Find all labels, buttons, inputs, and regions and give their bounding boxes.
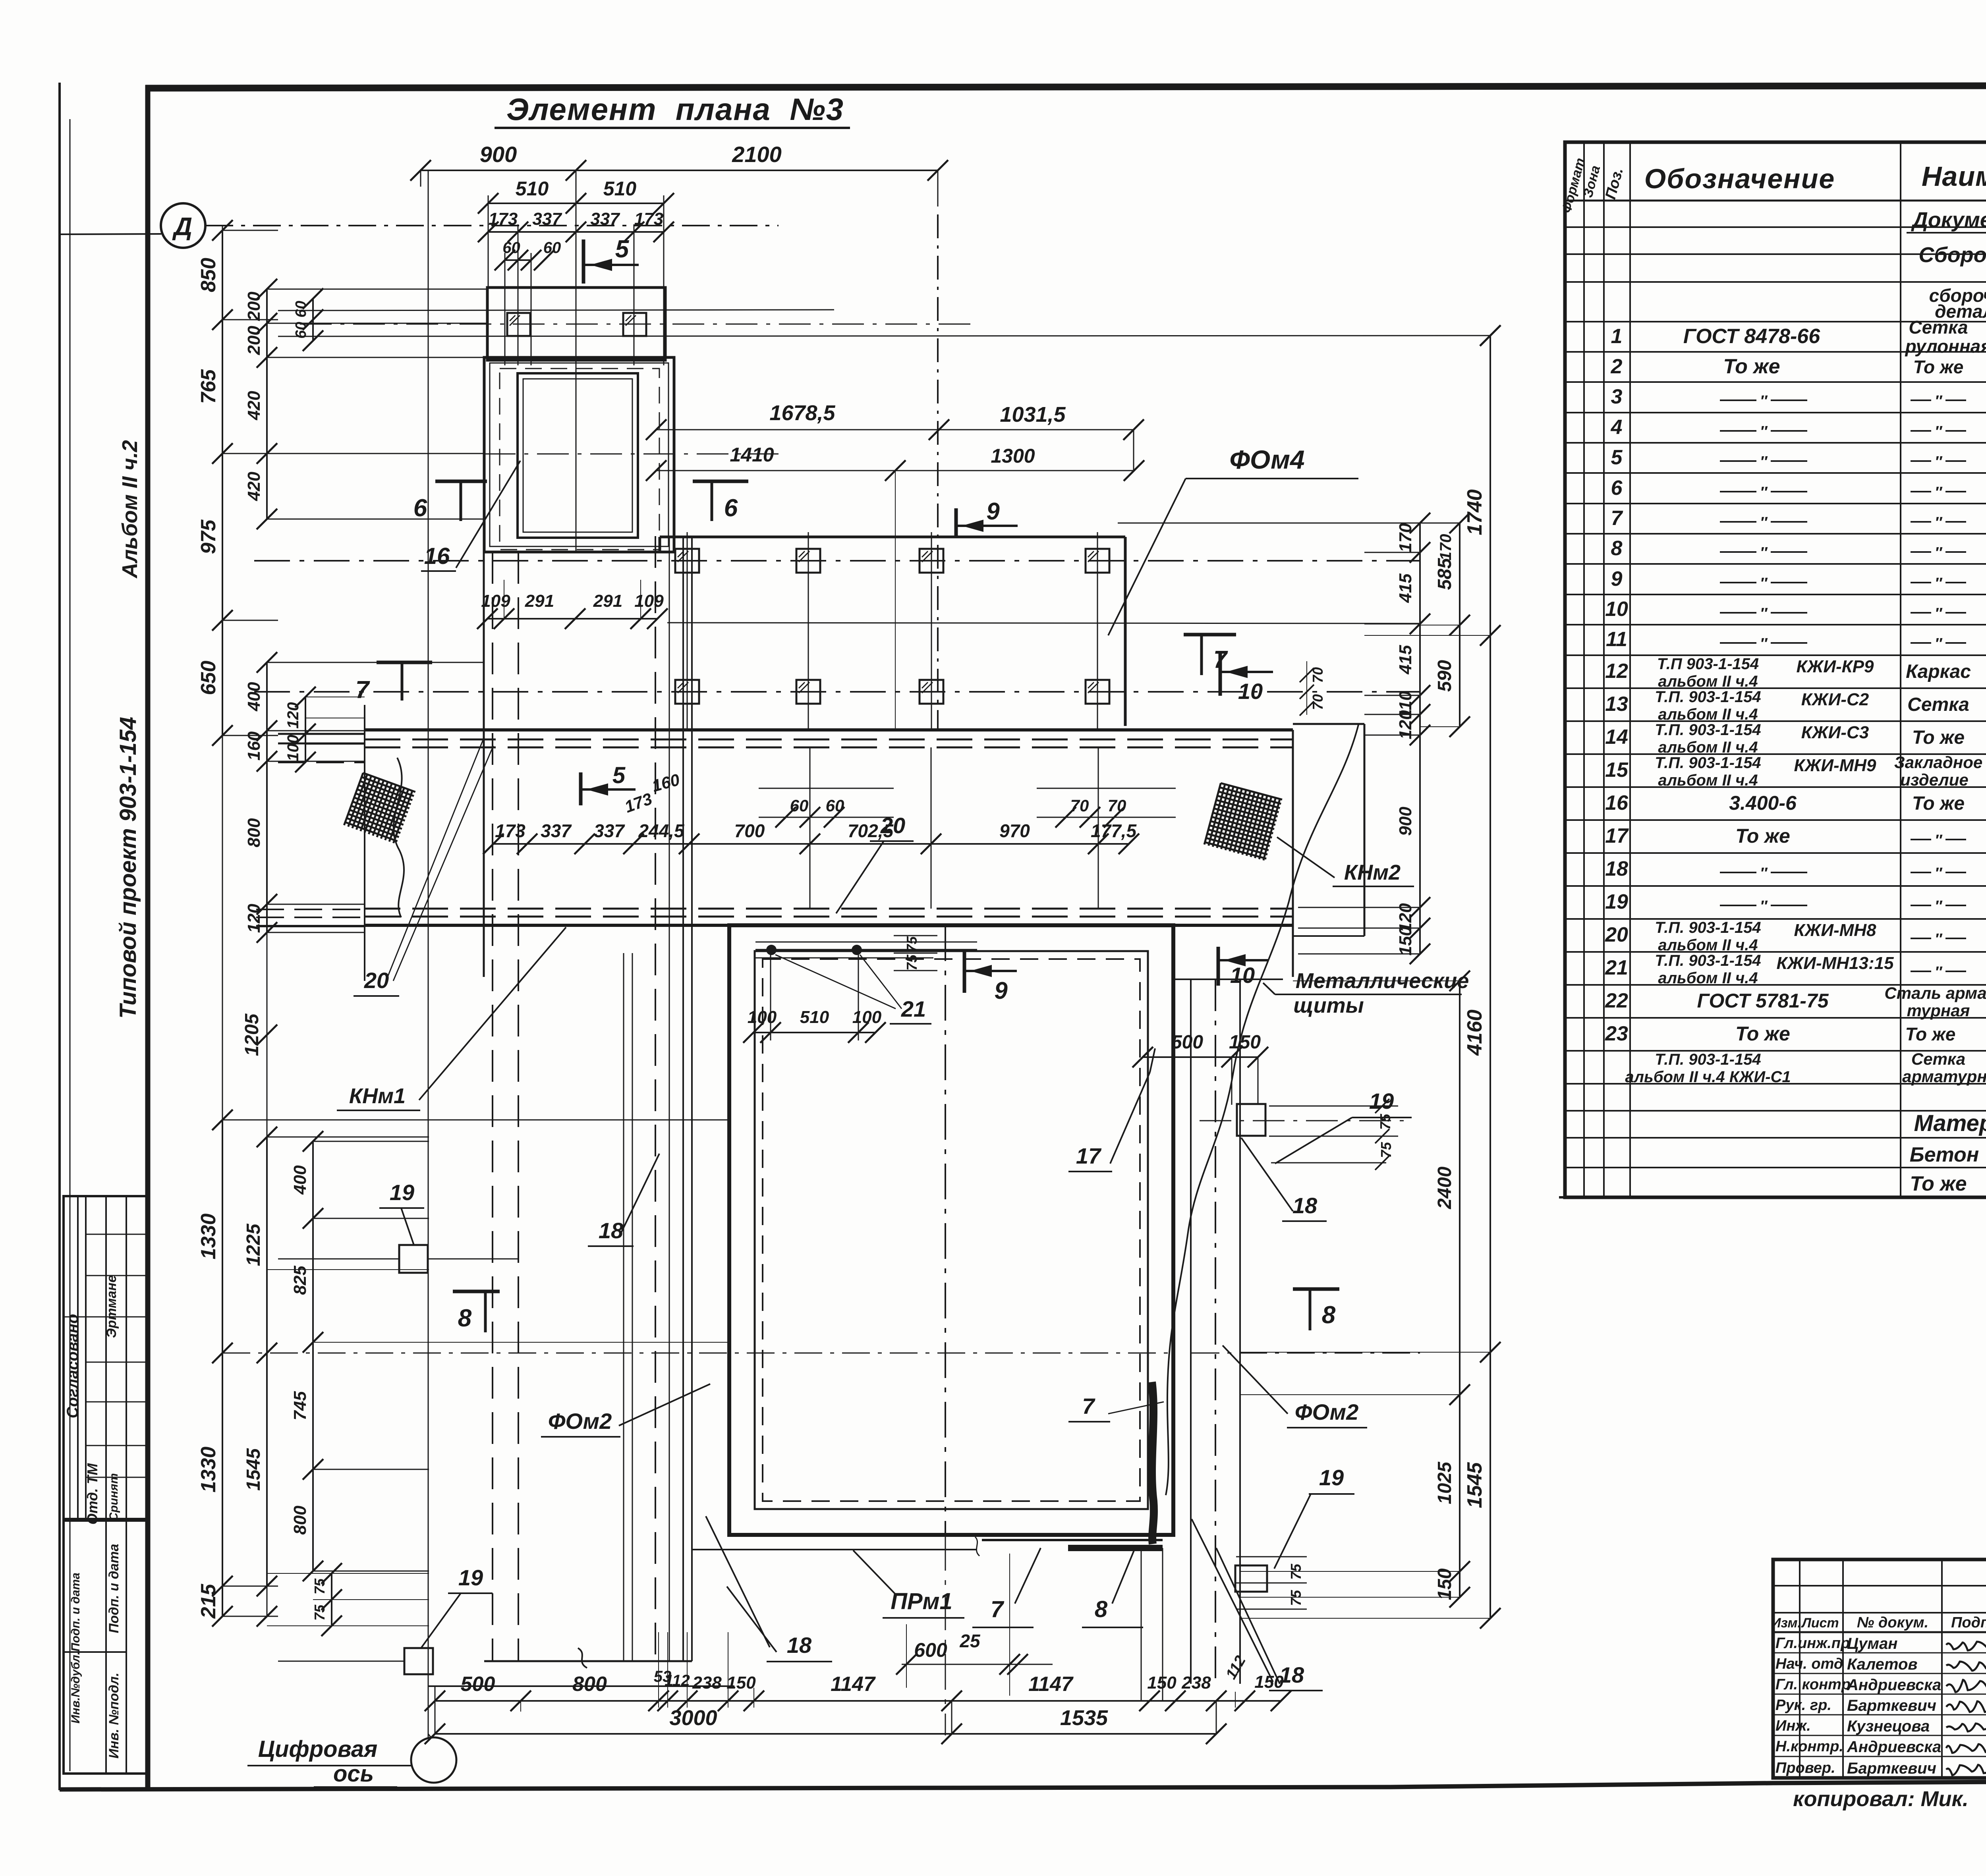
svg-text:17: 17 [1076,1143,1102,1168]
top micro dims 60/60 [505,259,531,261]
micro 75/75 right top [1269,1106,1398,1107]
svg-text:Альбом II ч.2: Альбом II ч.2 [118,440,142,579]
svg-text:1330: 1330 [197,1447,220,1493]
svg-text:ГОСТ 5781-75: ГОСТ 5781-75 [1697,990,1829,1012]
svg-text:112: 112 [665,1672,690,1689]
svg-text:ФОм2: ФОм2 [1295,1399,1359,1424]
svg-text:Цифровая: Цифровая [258,1736,378,1762]
svg-text:2100: 2100 [732,142,782,167]
svg-text:173: 173 [495,820,525,841]
svg-text:5: 5 [612,762,626,788]
svg-text:200: 200 [244,291,264,321]
svg-text:900: 900 [1396,807,1415,836]
svg-text:Сетка: Сетка [1907,694,1969,715]
svg-text:Т.П. 903-1-154: Т.П. 903-1-154 [1655,952,1761,969]
title block rows left part [1773,1585,1986,1586]
right dim chain B [1459,523,1461,727]
svg-text:То же: То же [1912,793,1965,814]
section mark 7 right [1184,633,1236,637]
svg-text:850: 850 [197,258,220,292]
svg-text:″: ″ [1935,454,1943,470]
svg-text:Андриевска: Андриевска [1847,1738,1941,1756]
svg-text:рулонная: рулонная [1905,336,1986,357]
svg-text:6: 6 [1611,477,1623,500]
svg-text:То же: То же [1913,357,1964,377]
svg-text:14: 14 [1605,726,1628,749]
channel right end step [1292,730,1294,977]
svg-text:800: 800 [290,1505,310,1535]
svg-text:18: 18 [1605,857,1628,880]
svg-text:4160: 4160 [1463,1009,1486,1056]
svg-text:щиты: щиты [1293,994,1364,1017]
bottom dim chain row1 [435,1700,1281,1702]
dim row inside channel [493,843,1129,845]
svg-text:970: 970 [999,820,1030,841]
svg-text:18: 18 [787,1633,812,1658]
channel top dashed pair [365,739,1293,741]
section mark 10 lower [1217,947,1220,986]
svg-text:150: 150 [1147,1673,1177,1693]
svg-text:КЖИ-С3: КЖИ-С3 [1801,723,1869,742]
svg-text:То же: То же [1912,727,1965,748]
section mark 10 top [1219,653,1222,696]
svg-text:3000: 3000 [669,1706,717,1730]
dim 500/150 right [1143,1056,1258,1058]
hatch blob KNm2 [1204,783,1282,861]
svg-text:″: ″ [1760,575,1768,592]
svg-text:1025: 1025 [1434,1461,1455,1504]
svg-text:20: 20 [364,968,389,993]
svg-text:2: 2 [1611,355,1623,378]
svg-text:7: 7 [355,676,370,704]
svg-text:60: 60 [826,796,844,815]
central pit dashed inner [763,959,1140,1501]
svg-text:150: 150 [1396,926,1415,955]
svg-text:То же: То же [1735,1023,1790,1045]
svg-text:″: ″ [1760,514,1768,531]
svg-text:альбом II ч.4: альбом II ч.4 [1658,706,1758,723]
svg-text:21: 21 [1605,956,1628,979]
svg-text:10: 10 [1605,598,1628,621]
svg-text:КЖИ-КР9: КЖИ-КР9 [1796,657,1874,676]
svg-text:″: ″ [1935,393,1943,409]
svg-text:″: ″ [1935,931,1943,948]
svg-text:3: 3 [1611,385,1623,408]
svg-text:турная: турная [1907,1001,1970,1020]
svg-text:16: 16 [1605,791,1629,814]
channel break squiggle left [394,758,404,917]
svg-text:22: 22 [1605,989,1628,1012]
svg-text:100: 100 [748,1007,777,1027]
svg-text:20: 20 [880,813,905,838]
svg-text:8: 8 [1611,537,1623,560]
channel top solid [365,728,1293,731]
svg-text:415: 415 [1396,573,1415,603]
svg-text:585: 585 [1434,558,1455,590]
svg-text:420: 420 [244,391,264,421]
svg-text:Т.П. 903-1-154: Т.П. 903-1-154 [1655,688,1761,706]
svg-text:170: 170 [1396,523,1415,552]
svg-text:500: 500 [1171,1032,1203,1053]
svg-text:100: 100 [852,1007,882,1027]
svg-text:альбом II ч.4: альбом II ч.4 [1658,673,1758,690]
svg-text:19: 19 [1605,890,1628,913]
svg-text:9: 9 [994,977,1008,1004]
svg-text:177,5: 177,5 [1091,820,1137,841]
svg-text:КНм2: КНм2 [1344,861,1401,884]
svg-text:Закладное: Закладное [1894,753,1983,772]
svg-text:600: 600 [914,1639,947,1661]
svg-text:ГОСТ 8478-66: ГОСТ 8478-66 [1683,325,1820,348]
svg-text:№ докум.: № докум. [1857,1614,1928,1631]
metal shield thick line right wall [1152,1382,1154,1544]
svg-text:ФОм2: ФОм2 [548,1409,612,1434]
svg-text:Цуман: Цуман [1847,1635,1897,1652]
svg-text:6: 6 [413,494,427,522]
svg-text:900: 900 [480,142,517,167]
svg-text:Сталь арма-: Сталь арма- [1884,984,1986,1002]
svg-text:Элемент плана №3: Элемент плана №3 [506,92,844,127]
svg-text:415: 415 [1396,645,1415,675]
svg-text:арматурная: арматурная [1902,1067,1986,1086]
svg-text:Типовой проект 903-1-154: Типовой проект 903-1-154 [115,717,141,1019]
axis through footing squares [300,324,977,325]
svg-text:″: ″ [1760,454,1768,470]
left small squares 19 [399,1245,428,1273]
svg-text:700: 700 [734,820,765,841]
svg-text:″: ″ [1935,635,1943,652]
pit 16 dashed wall line [500,369,659,550]
dim 100/510/100 inside pit [753,1032,875,1033]
svg-text:КЖИ-МН13:15: КЖИ-МН13:15 [1776,953,1894,973]
svg-text:1535: 1535 [1060,1706,1108,1730]
svg-text:510: 510 [800,1007,829,1027]
svg-text:Н.контр.: Н.контр. [1775,1738,1843,1755]
channel left vertical solid [483,359,485,977]
pit vertical axis [945,925,946,1535]
svg-text:ФОм4: ФОм4 [1229,445,1304,474]
svg-text:1225: 1225 [243,1223,264,1266]
column squares row2 [675,680,699,704]
svg-text:альбом II ч.4: альбом II ч.4 [1658,772,1758,789]
bottom row line for materials [1559,1196,1986,1199]
svg-text:″: ″ [1760,484,1768,501]
svg-text:Д: Д [172,212,192,241]
svg-text:″: ″ [1760,423,1768,440]
section mark 7 left [377,661,432,664]
footing column square 2 [623,313,646,336]
svg-text:75: 75 [311,1578,328,1594]
svg-text:Нач. отд: Нач. отд [1775,1656,1843,1672]
digital axis vertical [428,170,429,1737]
svg-text:″: ″ [1935,605,1943,622]
svg-text:Сборочный чертёж: Сборочный чертёж [1918,243,1986,267]
platform interior line [667,623,1420,623]
svg-text:Наименование: Наименование [1922,161,1986,192]
svg-text:244,5: 244,5 [638,820,685,841]
platform outline [660,536,1125,538]
svg-text:″: ″ [1935,575,1943,592]
right strip verticals [1190,979,1192,1684]
svg-text:альбом II ч.4: альбом II ч.4 [1658,969,1758,987]
svg-text:400: 400 [290,1165,310,1195]
svg-text:″: ″ [1760,898,1768,915]
svg-text:Бетон: Бетон [1910,1143,1979,1166]
svg-text:337: 337 [594,820,625,841]
svg-text:КЖИ-МН8: КЖИ-МН8 [1794,921,1876,940]
channel dashed verticals [492,552,493,1661]
svg-text:″: ″ [1760,544,1768,561]
section mark 9 mid [954,508,958,537]
svg-text:То же: То же [1910,1172,1967,1195]
section mark 9 lower [963,951,966,993]
svg-text:2400: 2400 [1434,1166,1455,1209]
svg-text:″: ″ [1935,544,1943,561]
top dimension 900 / 2100 [421,170,938,171]
right strip squares 19 [1237,1104,1265,1136]
svg-text:Гл.инж.пр: Гл.инж.пр [1775,1635,1850,1652]
svg-text:7: 7 [991,1596,1005,1622]
section mark 8 left [453,1290,500,1293]
channel bottom solid [365,924,1293,927]
svg-text:291: 291 [593,591,622,611]
svg-text:Т.П. 903-1-154: Т.П. 903-1-154 [1655,919,1761,936]
svg-text:19: 19 [1319,1465,1344,1490]
svg-text:215: 215 [197,1584,220,1619]
svg-text:Т.П. 903-1-154: Т.П. 903-1-154 [1655,721,1761,739]
svg-text:Подп. и дата: Подп. и дата [106,1544,122,1633]
svg-text:60: 60 [543,239,561,257]
svg-text:109: 109 [634,591,664,611]
svg-text:КЖИ-С2: КЖИ-С2 [1801,690,1869,709]
svg-text:3.400-6: 3.400-6 [1729,792,1797,814]
frame top thick border [145,85,1986,88]
svg-text:25: 25 [959,1631,981,1651]
extension verticals for top dims [420,170,421,187]
svg-text:70: 70 [1108,796,1126,815]
svg-text:8: 8 [458,1305,472,1332]
svg-text:1205: 1205 [241,1013,263,1056]
micro 75/75 right bottom [1236,1556,1307,1558]
pit bottom lines [982,1539,1163,1541]
section mark 5 (top) [582,239,585,284]
svg-text:120: 120 [244,903,264,933]
specification table outer border [1565,142,1986,1197]
svg-text:6: 6 [724,494,738,522]
section mark 5 lower [579,772,583,805]
svg-text:То же: То же [1905,1024,1956,1044]
long wavy break line right side [1166,725,1358,1495]
svg-text:200: 200 [244,326,264,355]
svg-text:КЖИ-МН9: КЖИ-МН9 [1794,756,1876,775]
metal shield bottom L-bar [1068,1545,1163,1551]
svg-text:Каркас: Каркас [1906,661,1971,682]
svg-text:10: 10 [1238,679,1263,704]
svg-text:альбом II ч.4: альбом II ч.4 [1658,739,1758,756]
central pit inner wall [755,951,1148,1509]
title block vertical dividers left part [1799,1559,1801,1778]
svg-text:150: 150 [1434,1568,1455,1600]
section mark 6 right [693,480,748,483]
svg-text:15: 15 [1605,759,1629,782]
svg-text:23: 23 [1605,1022,1628,1045]
title block outer [1773,1559,1986,1778]
svg-text:400: 400 [244,682,264,712]
svg-text:1300: 1300 [991,445,1035,467]
svg-text:″: ″ [1935,423,1943,440]
svg-text:Сетка: Сетка [1911,1050,1965,1068]
top footing block [487,288,665,360]
svg-text:590: 590 [1434,660,1455,692]
pit 16 outer [484,357,674,552]
svg-text:109: 109 [481,591,510,611]
svg-text:9: 9 [1611,567,1623,591]
svg-text:Кузнецова: Кузнецова [1847,1718,1930,1735]
pit 16 wall inner double [518,373,638,538]
svg-text:альбом II ч.4: альбом II ч.4 [1658,936,1758,954]
svg-text:510: 510 [603,178,637,200]
svg-text:Лист: Лист [1801,1615,1839,1631]
svg-text:1545: 1545 [243,1448,264,1491]
micro 75/75 pit top right [894,935,937,936]
channel left cap [364,705,365,981]
svg-text:изделие: изделие [1900,770,1969,789]
FOm2 left strip verticals [623,953,624,1661]
svg-text:Гл. контр: Гл. контр [1775,1676,1851,1693]
svg-text:60: 60 [790,796,809,815]
pit axis extension down [945,1535,946,1735]
svg-text:Инв.№дубл.Подп. и дата: Инв.№дубл.Подп. и дата [69,1573,82,1724]
frame left thick border [145,85,151,1788]
right chains extensions [1364,552,1420,553]
bottom dim chain row2 [435,1733,1216,1735]
svg-text:Сринят: Сринят [107,1473,120,1521]
sheet outer left border line [58,83,61,1790]
svg-text:Барткевич: Барткевич [1847,1697,1936,1714]
svg-text:″: ″ [1935,898,1943,915]
svg-text:1330: 1330 [197,1214,220,1260]
svg-text:Андриевска: Андриевска [1847,1676,1941,1694]
svg-text:150: 150 [1229,1032,1261,1053]
svg-text:Т.П 903-1-154: Т.П 903-1-154 [1657,655,1759,673]
svg-text:1740: 1740 [1463,489,1486,535]
column vertical axes [687,532,688,730]
svg-text:Документация: Документация [1911,208,1986,232]
svg-text:745: 745 [290,1391,310,1421]
svg-text:7: 7 [1611,507,1623,530]
svg-text:291: 291 [525,591,554,611]
section mark 8 right [1293,1287,1339,1291]
table header [1583,142,1585,1197]
svg-text:11: 11 [1606,628,1627,651]
svg-text:19: 19 [1369,1089,1394,1114]
svg-text:1031,5: 1031,5 [1000,403,1066,427]
svg-text:Инв. №подл.: Инв. №подл. [106,1673,122,1759]
svg-text:9: 9 [986,498,1000,525]
svg-text:Провер.: Провер. [1775,1760,1835,1776]
svg-text:75: 75 [904,954,920,971]
right dim chain C [1489,336,1491,1618]
svg-text:18: 18 [599,1218,624,1243]
left dim chain 1 [222,230,223,735]
svg-text:″: ″ [1935,964,1943,980]
svg-text:5: 5 [1611,446,1623,469]
svg-text:5: 5 [615,235,630,263]
left band KNm1 extension [278,733,365,735]
svg-text:4: 4 [1611,416,1623,439]
svg-text:10: 10 [1230,963,1255,988]
svg-text:150: 150 [726,1673,756,1693]
svg-text:120: 120 [284,702,302,729]
svg-text:19: 19 [390,1180,414,1205]
svg-text:20: 20 [1605,923,1628,946]
svg-text:″: ″ [1760,635,1768,652]
svg-text:1545: 1545 [1463,1462,1486,1508]
svg-text:Материалы:: Материалы: [1914,1110,1986,1136]
svg-text:То же: То же [1723,355,1780,378]
central pit outer wall [729,925,1173,1535]
svg-text:650: 650 [197,661,220,695]
dim 109/291/291/109 below pit16 [487,618,657,620]
left chains horizontal extension lines [222,230,278,231]
svg-text:75: 75 [904,936,920,952]
svg-text:17: 17 [1605,824,1629,847]
left strip approval table upper [64,1196,148,1519]
svg-text:Калетов: Калетов [1847,1656,1918,1673]
svg-text:ось: ось [333,1761,374,1787]
svg-text:150: 150 [1254,1672,1284,1692]
top dimension 173/337/337/173 [488,231,664,233]
svg-text:238: 238 [692,1673,722,1693]
channel bottom dashed pair [365,908,1293,910]
section mark 6 left [435,480,487,483]
pit 16 inner verticals [576,360,577,552]
right dim chain A [1419,523,1421,954]
svg-text:Отд. ТМ: Отд. ТМ [84,1463,100,1525]
svg-text:копировал: Мик.: копировал: Мик. [1793,1787,1969,1811]
frame bottom border [60,1779,1986,1789]
svg-text:Рук. гр.: Рук. гр. [1775,1697,1831,1714]
svg-text:60: 60 [293,301,309,317]
svg-text:765: 765 [197,369,220,404]
svg-text:1147: 1147 [831,1673,876,1696]
svg-text:Барткевич: Барткевич [1847,1760,1936,1777]
svg-text:75: 75 [1377,1114,1393,1130]
axis row1 dash-dot [254,560,1420,562]
svg-text:19: 19 [458,1565,483,1590]
svg-text:″: ″ [1760,605,1768,622]
svg-text:800: 800 [244,818,264,847]
svg-text:70: 70 [1310,694,1326,710]
svg-text:75: 75 [311,1604,328,1621]
left strip table lower [64,1521,148,1774]
bottom guide verticals [658,1632,659,1708]
svg-text:″: ″ [1760,865,1768,882]
svg-text:Инж.: Инж. [1775,1718,1811,1734]
footing column square 1 [507,313,530,336]
hatch blob left [344,773,415,844]
svg-text:Сетка: Сетка [1909,317,1968,338]
tsifrovaya os circle and label [411,1737,456,1783]
channel bottom caps [484,1660,692,1662]
svg-text:″: ″ [1935,514,1943,531]
svg-text:975: 975 [197,519,220,554]
micro dims 60/60 and 70/70 above channel [759,788,894,789]
svg-text:Эртмане: Эртмане [104,1275,119,1338]
svg-text:21: 21 [901,996,926,1021]
svg-text:1147: 1147 [1028,1673,1074,1696]
svg-text:337: 337 [541,820,572,841]
